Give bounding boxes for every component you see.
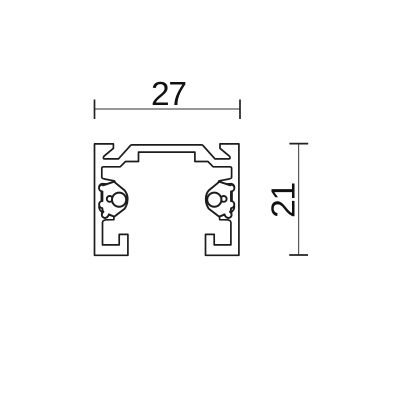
conductor holder left (insulator clip): [99, 182, 128, 218]
dimension tick left: [94, 100, 96, 120]
svg-text:21: 21: [266, 183, 303, 218]
conductor left (large circle): [112, 193, 126, 207]
svg-text:27: 27: [151, 76, 186, 113]
dimension tick bottom: [289, 254, 308, 256]
contact slot left (small circle): [107, 196, 113, 202]
dimension tick right: [239, 100, 241, 120]
conductor right (large circle): [207, 193, 221, 207]
contact slot right (small circle): [221, 196, 227, 202]
conductor holder right (insulator clip): [206, 182, 235, 218]
track profile outline (extrusion cross-section): [95, 144, 239, 255]
dimension tick top: [289, 143, 308, 145]
dimension line 27 (horizontal): [95, 108, 241, 110]
dimension line 21 (vertical): [298, 144, 300, 255]
